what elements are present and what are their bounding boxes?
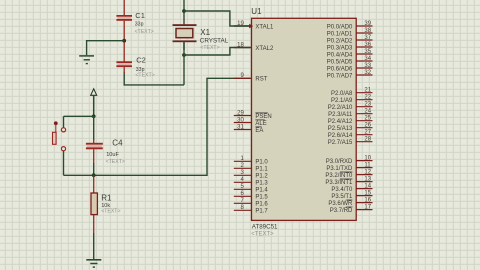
svg-text:P0.5/AD5: P0.5/AD5 [327, 59, 353, 65]
svg-text:P1.5: P1.5 [255, 195, 268, 201]
property &lt;TEXT&gt; (C4) [106, 159, 125, 165]
svg-text:24: 24 [364, 109, 371, 115]
power terminal (VCC arrow) [91, 89, 97, 117]
svg-text:P0.0/AD0: P0.0/AD0 [327, 24, 353, 30]
svg-text:<TEXT>: <TEXT> [135, 29, 154, 35]
svg-text:27: 27 [364, 130, 371, 136]
svg-text:31: 31 [237, 124, 244, 130]
pin P0.5/AD5 (pin 34) [327, 56, 373, 65]
svg-text:P0.6/AD6: P0.6/AD6 [327, 66, 353, 72]
svg-text:32: 32 [364, 70, 371, 76]
svg-text:PSEN: PSEN [255, 114, 271, 120]
svg-text:<TEXT>: <TEXT> [200, 45, 219, 51]
pin P3.5/T1 (pin 15) [331, 191, 372, 200]
value 33p (C1) [135, 22, 144, 28]
svg-text:<TEXT>: <TEXT> [251, 231, 274, 237]
svg-text:P1.1: P1.1 [255, 167, 268, 173]
pin P2.0/A8 (pin 21) [331, 88, 372, 97]
label C2 [136, 56, 146, 65]
svg-text:38: 38 [364, 28, 371, 34]
svg-text:35: 35 [364, 49, 371, 55]
svg-text:P2.6/A14: P2.6/A14 [328, 133, 353, 139]
pin P0.7/AD7 (pin 32) [327, 70, 373, 79]
pin P0.2/AD2 (pin 37) [327, 35, 373, 44]
svg-text:P2.3/A11: P2.3/A11 [328, 112, 353, 118]
svg-text:<TEXT>: <TEXT> [101, 209, 120, 215]
svg-text:33: 33 [364, 63, 371, 69]
value CRYSTAL [200, 38, 229, 45]
svg-text:11: 11 [364, 163, 371, 169]
svg-text:C1: C1 [135, 11, 145, 20]
pin P2.5/A13 (pin 26) [328, 123, 373, 132]
svg-text:P1.3: P1.3 [255, 181, 268, 187]
pin P3.0/RXD (pin 10) [326, 156, 373, 165]
label R1 [101, 194, 112, 203]
node crystal-top junction [182, 9, 186, 13]
pin P3.2/INT0 (pin 12) [325, 170, 372, 179]
svg-text:P1.2: P1.2 [255, 174, 268, 180]
svg-text:P2.1/A9: P2.1/A9 [331, 98, 353, 104]
svg-text:P3.7/RD: P3.7/RD [330, 208, 353, 214]
svg-text:P3.5/T1: P3.5/T1 [331, 194, 353, 200]
svg-text:13: 13 [364, 177, 371, 183]
capacitor C4 [86, 139, 103, 163]
svg-text:XTAL1: XTAL1 [255, 24, 274, 30]
svg-text:C4: C4 [112, 139, 123, 148]
pin RST (pin 9) [234, 73, 268, 82]
wire overlay on XTAL2 pin stub [234, 47, 251, 49]
svg-text:34: 34 [364, 56, 371, 62]
svg-text:<TEXT>: <TEXT> [135, 72, 154, 78]
wire junction to ground [87, 41, 125, 56]
svg-text:15: 15 [364, 191, 371, 197]
button (push switch) [53, 116, 66, 175]
svg-text:14: 14 [364, 184, 371, 190]
svg-text:10uF: 10uF [106, 152, 119, 158]
svg-text:16: 16 [364, 198, 371, 204]
pin XTAL1 input arrow [249, 24, 253, 29]
property &lt;TEXT&gt; (R1) [101, 209, 120, 215]
label AT89C51 [252, 224, 278, 231]
svg-text:P0.2/AD2: P0.2/AD2 [327, 38, 353, 44]
svg-text:10: 10 [364, 156, 371, 162]
svg-text:ALE: ALE [255, 121, 266, 127]
pin P1.3 (pin 4) [234, 177, 269, 186]
property &lt;TEXT&gt; (X1) [200, 45, 219, 51]
svg-text:X1: X1 [200, 28, 210, 37]
svg-text:P1.7: P1.7 [255, 209, 268, 215]
label U1 [251, 7, 262, 16]
svg-text:AT89C51: AT89C51 [252, 224, 278, 231]
node C4/R1 junction [92, 173, 96, 177]
pin P0.4/AD4 (pin 35) [327, 49, 373, 58]
svg-text:EA: EA [255, 128, 263, 134]
svg-text:P0.1/AD1: P0.1/AD1 [327, 31, 353, 37]
pin P0.6/AD6 (pin 33) [327, 63, 373, 72]
pin P1.4 (pin 5) [234, 184, 269, 193]
capacitor C2 [116, 42, 132, 74]
svg-text:C2: C2 [136, 56, 146, 65]
svg-text:21: 21 [364, 88, 371, 94]
pin P0.3/AD3 (pin 36) [327, 42, 373, 51]
value 10uF [106, 152, 119, 158]
svg-text:22: 22 [364, 95, 371, 101]
pin P2.4/A12 (pin 25) [328, 116, 373, 125]
label C4 [112, 139, 123, 148]
wire crystal bottom down to C2 net [183, 42, 185, 85]
wire crystal bottom to XTAL2 pin [184, 48, 251, 56]
svg-text:P0.7/AD7: P0.7/AD7 [327, 73, 353, 79]
wire C2 bottom to crystal column [124, 72, 184, 85]
svg-text:29: 29 [237, 110, 244, 116]
capacitor C1 [116, 0, 132, 40]
svg-text:25: 25 [364, 116, 371, 122]
svg-text:P1.4: P1.4 [255, 188, 268, 194]
label C1 [135, 11, 145, 20]
svg-text:P2.2/A10: P2.2/A10 [328, 105, 353, 111]
pin P2.1/A9 (pin 22) [331, 95, 372, 104]
crystal X1 [173, 14, 197, 50]
svg-text:P2.7/A15: P2.7/A15 [328, 140, 353, 146]
svg-text:36: 36 [364, 42, 371, 48]
pin XTAL1 (pin 19) [234, 21, 274, 30]
svg-text:P3.4/T0: P3.4/T0 [331, 187, 353, 193]
pin P1.1 (pin 2) [234, 163, 269, 172]
pin P3.4/T0 (pin 14) [331, 184, 372, 193]
svg-text:P1.0: P1.0 [255, 160, 268, 166]
pin P1.5 (pin 6) [234, 191, 269, 200]
pin P1.6 (pin 7) [234, 198, 269, 207]
wire R1 to ground [93, 233, 95, 260]
label X1 [200, 28, 210, 37]
svg-text:<TEXT>: <TEXT> [106, 159, 125, 165]
pin P2.7/A15 (pin 28) [328, 137, 373, 146]
svg-text:26: 26 [364, 123, 371, 129]
property &lt;TEXT&gt; (C1) [135, 29, 154, 35]
svg-text:R1: R1 [101, 194, 112, 203]
ground (near C1/C2) [79, 56, 94, 64]
pin ALE (pin 30) [234, 117, 267, 126]
svg-text:P3.0/RXD: P3.0/RXD [326, 159, 353, 165]
svg-text:33p: 33p [135, 22, 144, 28]
svg-text:CRYSTAL: CRYSTAL [200, 38, 229, 45]
node power/button junction [92, 114, 96, 118]
pin P3.1/TXD (pin 11) [326, 163, 372, 172]
op chip U1 AT89C51 body [252, 18, 357, 220]
svg-text:P0.3/AD3: P0.3/AD3 [327, 45, 353, 51]
pin P3.3/INT1 (pin 13) [325, 177, 372, 186]
ground (below R1) [86, 260, 101, 267]
wire power junction to button [64, 115, 94, 117]
pin P0.1/AD1 (pin 38) [327, 28, 373, 37]
value 10k [101, 203, 110, 209]
svg-text:23: 23 [364, 102, 371, 108]
svg-text:12: 12 [364, 170, 371, 176]
wire RST net bottom run [64, 78, 251, 175]
resistor R1 [91, 175, 97, 233]
wire crystal top to XTAL1 pin [184, 11, 251, 26]
pin EA (pin 31) [234, 124, 264, 133]
svg-text:P3.2/INT0: P3.2/INT0 [325, 173, 353, 179]
pin P1.2 (pin 3) [234, 170, 269, 179]
svg-text:37: 37 [364, 35, 371, 41]
node crystal-bottom junction [182, 53, 186, 57]
svg-text:P2.0/A8: P2.0/A8 [331, 91, 353, 97]
pin XTAL2 (pin 18) [234, 42, 274, 51]
pin P0.0/AD0 (pin 39) [327, 21, 373, 30]
property &lt;TEXT&gt; (U1) [251, 231, 274, 237]
svg-text:P0.4/AD4: P0.4/AD4 [327, 52, 353, 58]
svg-text:XTAL2: XTAL2 [255, 46, 274, 52]
pin P2.6/A14 (pin 27) [328, 130, 373, 139]
pin PSEN (pin 29) [234, 110, 272, 119]
pin P1.7 (pin 8) [234, 205, 269, 214]
wire XTAL1 net top vertical [183, 0, 185, 14]
wire power junction down to C4 [93, 116, 95, 140]
svg-text:17: 17 [364, 205, 371, 211]
pin P1.0 (pin 1) [234, 156, 269, 165]
pin P3.6/WR (pin 16) [328, 198, 372, 207]
svg-text:RST: RST [255, 77, 267, 83]
svg-text:P3.6/WR: P3.6/WR [328, 201, 353, 207]
pin P3.7/RD (pin 17) [330, 205, 373, 214]
svg-text:28: 28 [364, 137, 371, 143]
value 33p (C2) [136, 67, 145, 73]
svg-text:P1.6: P1.6 [255, 202, 268, 208]
wire overlay on XTAL1 pin stub [234, 25, 250, 27]
pin P2.2/A10 (pin 23) [328, 102, 373, 111]
wire C4 to RST net [93, 163, 95, 175]
pin P2.3/A11 (pin 24) [328, 109, 372, 118]
node C1/C2/ground junction [122, 39, 126, 43]
svg-text:U1: U1 [251, 7, 262, 16]
svg-text:39: 39 [364, 21, 371, 27]
property &lt;TEXT&gt; (C2) [135, 72, 154, 78]
svg-text:30: 30 [237, 117, 244, 123]
svg-text:P2.5/A13: P2.5/A13 [328, 126, 353, 132]
svg-text:P3.1/TXD: P3.1/TXD [326, 166, 353, 172]
svg-text:P3.3/INT1: P3.3/INT1 [325, 180, 353, 186]
svg-text:P2.4/A12: P2.4/A12 [328, 119, 353, 125]
